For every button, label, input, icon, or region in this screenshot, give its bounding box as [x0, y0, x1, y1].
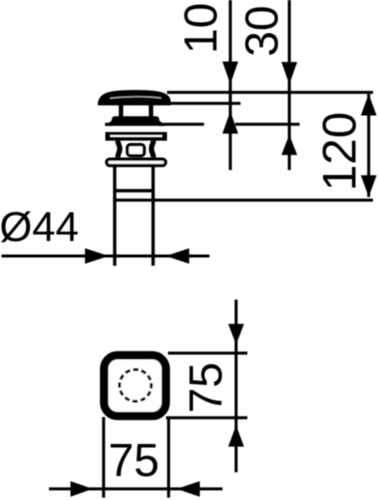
- svg-text:75: 75: [108, 434, 159, 486]
- svg-text:10: 10: [174, 3, 226, 54]
- plug keyhole detail: [127, 145, 144, 156]
- arrowhead diameter44 right-pointing: [85, 248, 109, 264]
- arrowhead V4 up: [228, 425, 244, 446]
- plug flange bottom line: [106, 137, 166, 140]
- plug collar left wing: [105, 120, 113, 127]
- arrowhead bottom75 right-pointing: [71, 481, 93, 497]
- tailpipe right wall: [151, 167, 154, 266]
- extension line C flange top left segment: [105, 123, 204, 126]
- arrowhead V4 down: [228, 324, 244, 345]
- plug lower flange: [107, 159, 166, 165]
- dimension line V1 (10) shaft: [229, 0, 232, 170]
- plug collar band: [112, 116, 159, 126]
- arrowhead bottom75 left-pointing: [177, 481, 200, 497]
- arrowhead diameter44 left-pointing: [166, 248, 189, 264]
- top view dashed circle: [117, 367, 153, 403]
- plug flange right stub: [162, 132, 167, 141]
- extension line C flange top right segment: [235, 123, 299, 126]
- extension line squircle top right: [168, 352, 247, 355]
- plug neck left wall: [119, 105, 123, 119]
- extension line D tailpipe end: [113, 199, 373, 202]
- plug cap dome: [98, 90, 171, 105]
- plug cap highlight: [110, 97, 161, 99]
- plug flange top line: [107, 132, 167, 135]
- svg-text:120: 120: [313, 112, 366, 191]
- dimension line V2 (30) shaft: [288, 0, 291, 170]
- arrowhead V1 up: [222, 111, 238, 133]
- extension line B cap bottom: [165, 102, 241, 105]
- extension line squircle left down: [102, 417, 105, 498]
- tailpipe left wall: [113, 167, 116, 266]
- svg-text:75: 75: [180, 362, 232, 413]
- top view squircle body: [104, 355, 166, 416]
- plug collar right wing: [158, 120, 166, 127]
- arrowhead V3 up: [361, 94, 377, 116]
- arrowhead V3 down: [361, 175, 377, 197]
- dimension line V3 (120) shaft: [367, 94, 370, 197]
- svg-text:30: 30: [236, 5, 288, 56]
- plug mid-body right wall: [151, 141, 153, 158]
- dimension line bottom 75: [49, 487, 223, 490]
- dimension leader line for diameter 44: [2, 255, 210, 258]
- plug flange left stub: [105, 132, 110, 141]
- tailpipe joint line: [114, 189, 155, 192]
- arrowhead V2 down: [281, 62, 297, 84]
- svg-text:Ø44: Ø44: [0, 203, 79, 250]
- arrowhead V1 down: [222, 62, 238, 85]
- dimension line V4 (75 vertical) shaft: [235, 300, 238, 473]
- extension line A cap top: [167, 91, 373, 94]
- plug neck right wall: [149, 105, 153, 119]
- extension line squircle right down: [167, 418, 170, 498]
- plug mid-body left wall: [118, 141, 120, 158]
- extension line squircle bottom right: [166, 416, 247, 419]
- arrowhead V2 up: [281, 135, 297, 155]
